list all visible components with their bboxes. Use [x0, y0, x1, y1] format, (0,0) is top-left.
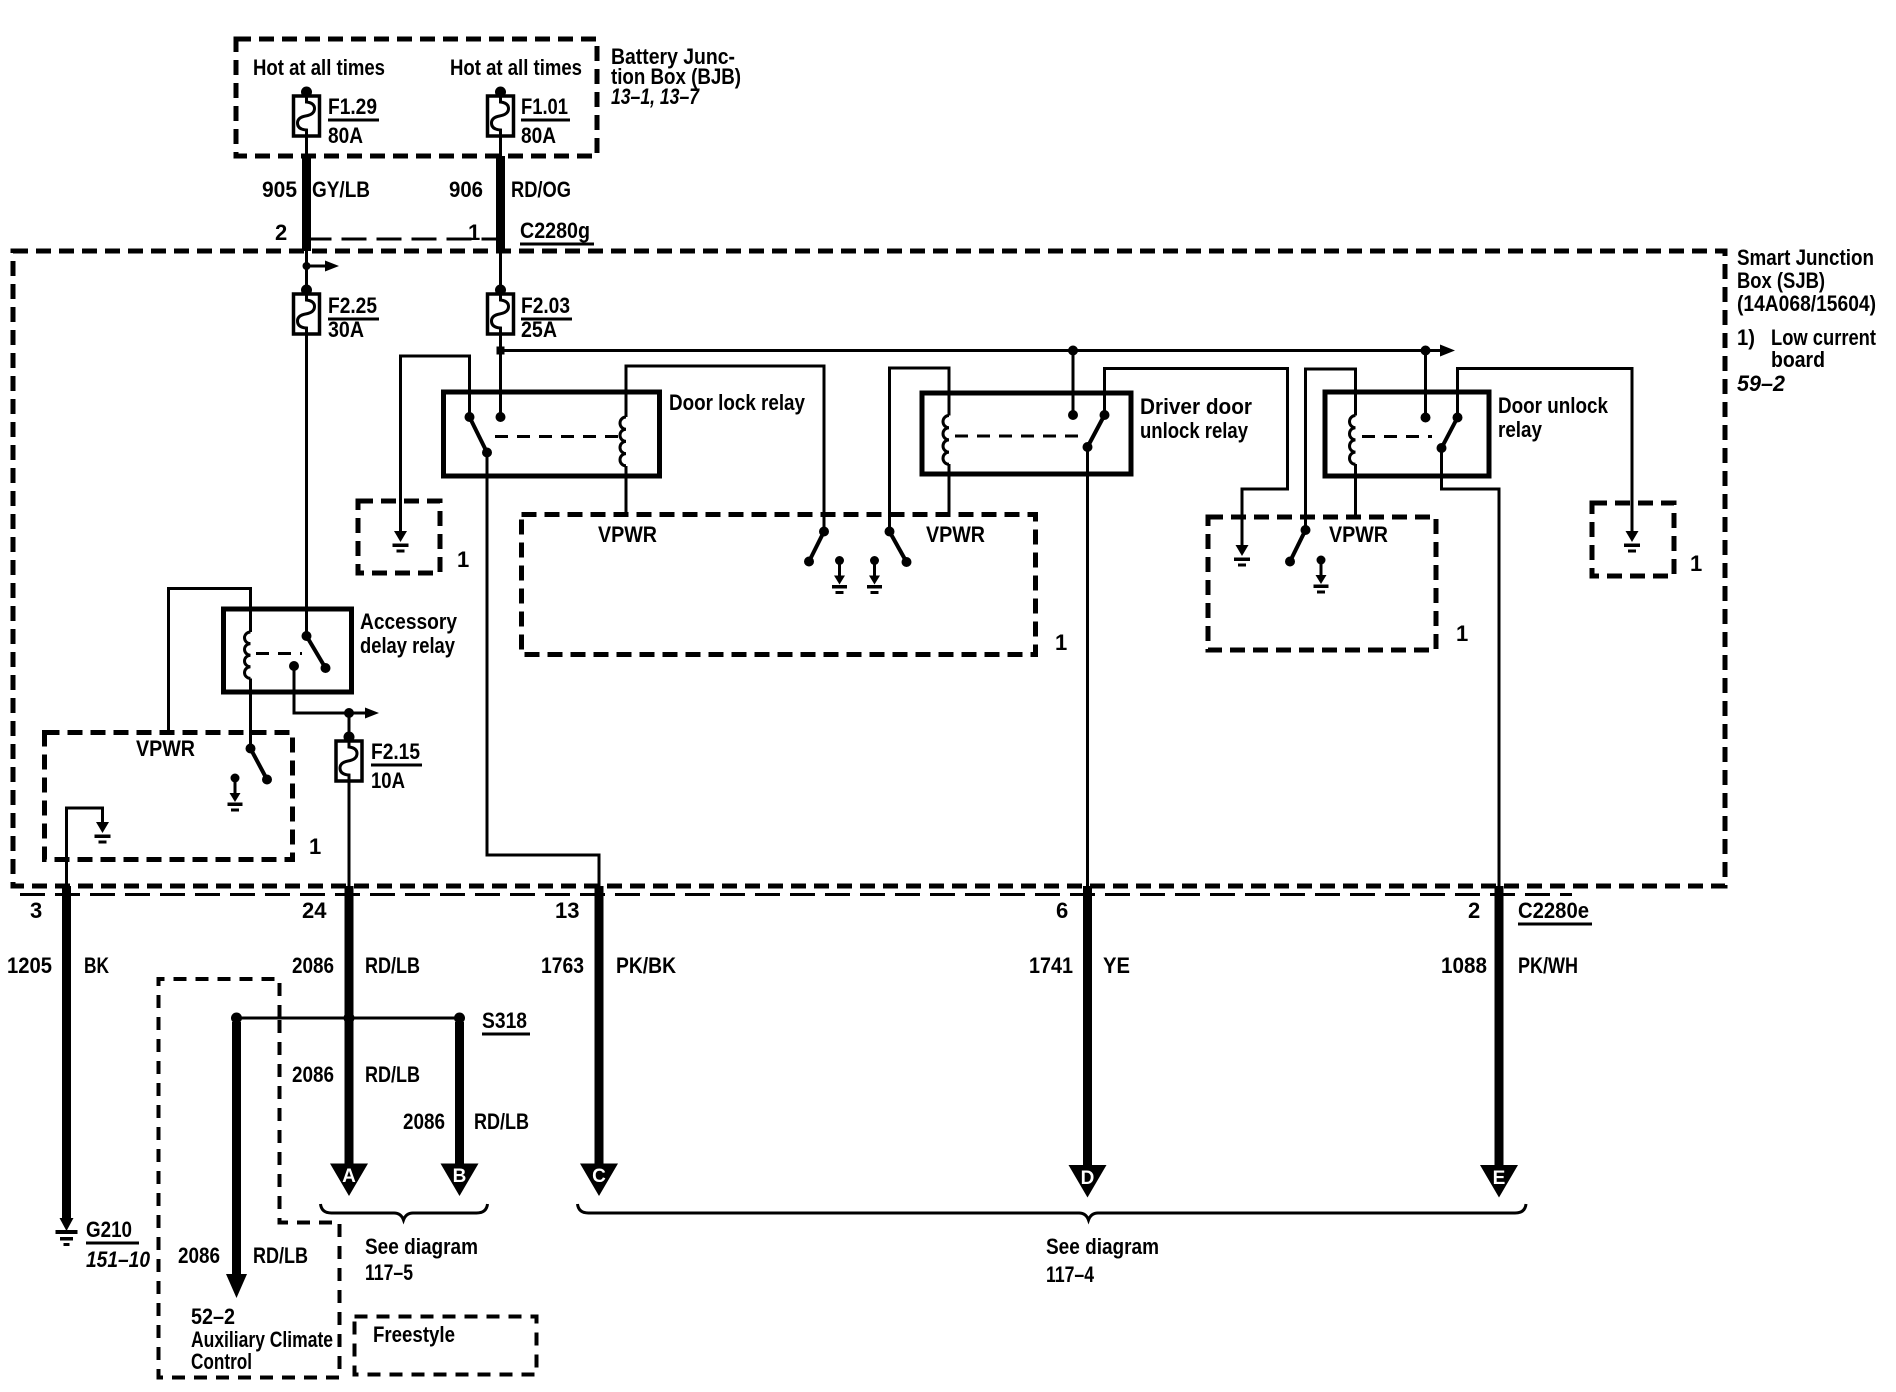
coil door unlock relay [1350, 416, 1356, 465]
svg-text:PK/BK: PK/BK [616, 953, 676, 978]
arrow right from F2.15 junction [349, 712, 367, 715]
wire accessory output to F2.15 [294, 666, 349, 713]
node bus junction door unlock [1421, 346, 1431, 356]
wire circuit 1741 YE (thick, pin 6) [1083, 886, 1092, 1167]
svg-text:13: 13 [555, 898, 579, 923]
svg-text:52–2: 52–2 [191, 1304, 235, 1329]
svg-text:board: board [1771, 347, 1825, 372]
svg-text:Door unlock: Door unlock [1498, 393, 1609, 418]
svg-text:1: 1 [1690, 551, 1702, 576]
connector triangle B [441, 1164, 479, 1197]
svg-text:Control: Control [191, 1349, 252, 1374]
svg-text:80A: 80A [328, 123, 363, 148]
svg-text:905: 905 [262, 177, 297, 202]
wire fuse F1.29 to BJB edge [305, 136, 308, 156]
node driver door unlock arm end [1083, 442, 1093, 452]
smart junction box SJB [13, 251, 1725, 886]
auxiliary climate control dashed box [159, 979, 340, 1378]
wire circuit 905 (thick) [302, 156, 311, 251]
svg-text:A: A [342, 1166, 356, 1187]
node VPWR1 right arm end [902, 557, 912, 567]
underline F2.15 [371, 764, 422, 767]
svg-text:YE: YE [1103, 953, 1130, 978]
wire accessory coil bottom to VPWR0 switch [249, 679, 252, 749]
node bus junction driver door unlock [1068, 346, 1078, 356]
link dashed driver door unlock relay [955, 435, 1080, 438]
svg-text:117–5: 117–5 [365, 1260, 413, 1285]
wire 906 into SJB [499, 251, 502, 290]
connector triangle E [1480, 1165, 1518, 1198]
node accessory delay fixed contact [289, 661, 299, 671]
brace under A and B [321, 1204, 488, 1220]
svg-text:(14A068/15604): (14A068/15604) [1737, 291, 1876, 316]
svg-text:Hot at all times: Hot at all times [253, 55, 385, 80]
svg-text:F2.25: F2.25 [328, 293, 377, 318]
wire VPWR bus [501, 349, 1442, 352]
wire circuit 1088 PK/WH (thick, pin 2) [1495, 886, 1504, 1167]
wire ground jog to pin 3 [67, 808, 103, 888]
svg-text:1: 1 [457, 547, 469, 572]
fuse F2.03 [488, 294, 514, 334]
svg-text:1741: 1741 [1029, 953, 1073, 978]
node door lock relay arm end [482, 448, 492, 458]
svg-text:2086: 2086 [178, 1243, 220, 1268]
svg-text:VPWR: VPWR [926, 522, 985, 547]
wire circuit 1763 PK/BK (thick, pin 13) [595, 886, 604, 1164]
VPWR box 0 [45, 733, 293, 860]
VPWR box 1 [522, 515, 1036, 655]
svg-text:117–4: 117–4 [1046, 1262, 1095, 1287]
svg-text:VPWR: VPWR [1329, 522, 1388, 547]
svg-text:See diagram: See diagram [1046, 1234, 1159, 1259]
svg-text:relay: relay [1498, 417, 1543, 442]
underline C2280g [520, 243, 594, 246]
node driver door unlock fixed contact [1068, 410, 1078, 420]
coil driver door unlock relay [943, 416, 949, 465]
relay K1 door lock relay box [444, 392, 660, 476]
link dashed door lock relay [495, 435, 621, 438]
connector triangle D [1069, 1165, 1107, 1198]
wire door lock output to pin 13 [487, 453, 599, 889]
fuse F2.25 [294, 294, 320, 334]
fuse F1.29 [294, 96, 320, 136]
svg-text:25A: 25A [521, 317, 557, 342]
svg-text:1: 1 [309, 834, 321, 859]
svg-text:C: C [592, 1166, 606, 1187]
link dashed accessory delay relay [256, 652, 302, 655]
relay K3 door unlock relay box [1325, 392, 1489, 476]
node splice left [231, 1013, 242, 1024]
node VPWR0 switch pivot [246, 744, 256, 754]
svg-text:RD/LB: RD/LB [365, 953, 420, 978]
svg-text:C2280e: C2280e [1518, 898, 1589, 923]
svg-text:See diagram: See diagram [365, 1234, 478, 1259]
node accessory delay pivot [302, 631, 312, 641]
ground dashed box right [1592, 503, 1674, 576]
svg-text:B: B [453, 1166, 467, 1187]
node fuse F2.03 top [495, 285, 506, 296]
connector triangle A [330, 1164, 368, 1197]
node VPWR0 arm end [262, 775, 272, 785]
svg-text:10A: 10A [371, 768, 405, 793]
svg-text:F1.01: F1.01 [521, 94, 568, 119]
svg-text:1763: 1763 [541, 953, 584, 978]
ground symbol VPWR2 left [1234, 545, 1250, 567]
ground G210 symbol [56, 1218, 78, 1246]
svg-text:F2.03: F2.03 [521, 293, 570, 318]
battery junction box BJB [236, 39, 597, 156]
VPWR box 2 [1208, 517, 1436, 650]
wire accessory coil top to VPWR0 [169, 589, 251, 734]
svg-text:Hot at all times: Hot at all times [450, 55, 582, 80]
node door unlock arm end [1437, 443, 1447, 453]
node VPWR2 switch pivot [1301, 525, 1311, 535]
svg-text:GY/LB: GY/LB [312, 177, 370, 202]
svg-text:1: 1 [468, 220, 480, 245]
svg-text:13–1, 13–7: 13–1, 13–7 [611, 84, 700, 109]
wire splice to auxiliary climate control (thick arrow) [232, 1022, 241, 1276]
ground symbol VPWR2 right [1314, 556, 1329, 594]
node splice right [454, 1013, 465, 1024]
wire circuit 1205 BK (thick) [62, 886, 71, 1218]
node junction at F2.15 [344, 708, 354, 718]
svg-text:1205: 1205 [7, 953, 52, 978]
node door unlock fixed contact [1421, 413, 1431, 423]
relay K2 driver door unlock relay box [922, 393, 1131, 474]
svg-text:D: D [1081, 1168, 1095, 1189]
wire circuit 2086 RD/LB (thick, pin 24) [345, 886, 354, 1164]
wire circuit 906 (thick) [496, 156, 505, 251]
wire door lock coil bottom to VPWR [625, 466, 628, 517]
wire driver door unlock output to pin 6 [1086, 447, 1089, 888]
ground symbol VPWR0 left [95, 822, 111, 844]
underline S318 [482, 1033, 530, 1036]
wire driver door unlock coil bottom to VPWR1 [948, 464, 951, 517]
node splice S318 center [344, 1013, 355, 1024]
junction arrow right at wire 905 [303, 262, 311, 270]
switch arm VPWR2 [1290, 530, 1306, 562]
svg-text:Door lock relay: Door lock relay [669, 390, 806, 415]
connector C2280g dashed line [307, 238, 506, 241]
svg-text:6: 6 [1056, 898, 1068, 923]
wire bus to driver door unlock fixed contact [1072, 351, 1075, 416]
wire bus to door unlock fixed contact [1424, 351, 1427, 418]
arrow bus right end [1440, 345, 1455, 357]
wire 905 into SJB [305, 251, 308, 290]
svg-text:RD/LB: RD/LB [474, 1109, 529, 1134]
wire driver door unlock pivot to ground in VPWR2 [1105, 369, 1288, 547]
underline F1.01 [521, 119, 570, 122]
link dashed door unlock relay [1362, 435, 1432, 438]
wire F2.03 down to bus junction [499, 334, 502, 351]
node VPWR1 left arm end [804, 557, 814, 567]
switch arm driver door unlock [1088, 415, 1105, 447]
svg-text:delay relay: delay relay [360, 633, 456, 658]
wire driver door unlock coil top to VPWR1 switch [890, 368, 950, 532]
svg-text:906: 906 [449, 177, 483, 202]
node driver door unlock pivot [1100, 410, 1110, 420]
svg-text:2086: 2086 [292, 1062, 334, 1087]
underline C2280e [1518, 923, 1592, 926]
svg-text:RD/LB: RD/LB [365, 1062, 420, 1087]
svg-text:2: 2 [275, 220, 287, 245]
wire junction to fuse F2.15 [348, 713, 351, 741]
switch arm door lock relay [470, 417, 488, 453]
brace under C D E [578, 1204, 1527, 1220]
ground symbol VPWR1 a [832, 556, 847, 594]
node door lock relay pivot [465, 412, 475, 422]
svg-text:Driver door: Driver door [1140, 394, 1252, 419]
svg-text:151–10: 151–10 [86, 1247, 151, 1272]
svg-text:F1.29: F1.29 [328, 94, 377, 119]
underline G210 [86, 1242, 139, 1245]
switch arm VPWR0 [251, 749, 268, 780]
wire splice to B (thick) [455, 1022, 464, 1164]
node accessory delay arm end [321, 663, 331, 673]
connector triangle C [580, 1164, 618, 1197]
wire door lock pivot to ground box [401, 356, 470, 533]
underline F2.03 [521, 318, 572, 321]
switch arm door unlock [1442, 418, 1458, 449]
svg-text:C2280g: C2280g [520, 218, 590, 243]
svg-text:RD/OG: RD/OG [511, 177, 571, 202]
underline F2.25 [328, 318, 379, 321]
fuse F1.01 [488, 96, 514, 136]
svg-text:30A: 30A [328, 317, 364, 342]
ground dashed box left [358, 501, 440, 573]
node VPWR1 right switch pivot [885, 527, 895, 537]
node fuse F2.25 top [301, 285, 312, 296]
svg-text:2086: 2086 [403, 1109, 445, 1134]
node fuse F2.15 top [344, 732, 355, 743]
wire fuse F1.01 to BJB edge [499, 136, 502, 156]
ground symbol VPWR1 b [867, 556, 882, 594]
svg-text:BK: BK [84, 953, 109, 978]
svg-text:3: 3 [30, 898, 42, 923]
svg-text:59–2: 59–2 [1737, 371, 1786, 396]
wire door unlock output to pin 2 [1442, 448, 1500, 888]
node door lock relay fixed contact [496, 412, 506, 422]
svg-text:1: 1 [1055, 630, 1067, 655]
Freestyle dashed box [355, 1317, 537, 1375]
wire F2.25 to accessory delay relay [305, 334, 308, 636]
svg-text:G210: G210 [86, 1217, 132, 1242]
svg-text:unlock relay: unlock relay [1140, 418, 1249, 443]
node VPWR2 arm end [1285, 557, 1295, 567]
ground symbol in left ground box [393, 531, 409, 553]
svg-text:Box (SJB): Box (SJB) [1737, 268, 1825, 293]
svg-text:VPWR: VPWR [598, 522, 657, 547]
ground symbol in right ground box [1624, 531, 1640, 553]
wire F2.15 to pin 24 [348, 781, 351, 888]
svg-text:PK/WH: PK/WH [1518, 953, 1578, 978]
svg-text:1: 1 [1456, 621, 1468, 646]
coil door lock relay [620, 417, 626, 466]
switch arm VPWR1 left [809, 532, 824, 562]
ground symbol VPWR0 [228, 774, 243, 812]
svg-text:E: E [1493, 1168, 1506, 1189]
wire door unlock coil bottom to VPWR2 [1354, 464, 1357, 519]
switch arm VPWR1 right [890, 532, 907, 563]
splice S318 line [237, 1017, 460, 1020]
svg-text:2086: 2086 [292, 953, 334, 978]
svg-text:VPWR: VPWR [136, 736, 195, 761]
node bus junction at F2.03 [497, 347, 505, 355]
fuse F2.15 [336, 741, 362, 781]
wire door lock coil top to VPWR switch [626, 366, 824, 532]
node fuse F1.01 top [495, 87, 506, 98]
svg-text:Smart Junction: Smart Junction [1737, 245, 1874, 270]
svg-text:2: 2 [1468, 898, 1480, 923]
connector C2280e dashed line [20, 893, 1572, 896]
wire bus to door lock relay fixed contact [499, 351, 502, 418]
svg-text:F2.15: F2.15 [371, 739, 420, 764]
node door unlock pivot [1453, 413, 1463, 423]
svg-text:Accessory: Accessory [360, 609, 458, 634]
svg-text:1088: 1088 [1441, 953, 1487, 978]
wire door unlock coil top to VPWR2 switch [1306, 369, 1356, 530]
svg-text:Freestyle: Freestyle [373, 1322, 455, 1347]
wire door unlock pivot to right ground box [1458, 369, 1633, 534]
svg-text:80A: 80A [521, 123, 556, 148]
relay K4 accessory delay relay box [224, 609, 352, 692]
coil accessory delay relay [245, 632, 251, 678]
node VPWR1 left switch pivot [819, 527, 829, 537]
node fuse F1.29 top [301, 87, 312, 98]
svg-text:RD/LB: RD/LB [253, 1243, 308, 1268]
svg-text:S318: S318 [482, 1008, 527, 1033]
svg-text:24: 24 [302, 898, 327, 923]
underline F1.29 [328, 119, 379, 122]
switch arm accessory delay [307, 636, 326, 668]
svg-text:1): 1) [1737, 325, 1755, 350]
